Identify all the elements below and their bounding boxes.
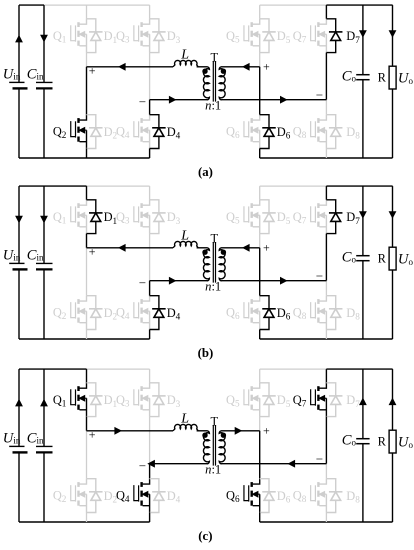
- wire: leg 2 midpoint lower: [149, 281, 151, 296]
- svg-text:L: L: [180, 412, 189, 427]
- inductor L: [173, 424, 198, 430]
- wire: leg 4 midpoint lower: [325, 281, 327, 296]
- wire: leg 3 midpoint upper: [259, 417, 261, 431]
- diode D2: [87, 296, 103, 330]
- wire current arrow, primary top (rightward): [114, 427, 122, 435]
- transistor Q5: [244, 19, 260, 53]
- wire current arrow, secondary bottom (rightward): [280, 96, 288, 104]
- wire: L to transformer primary: [197, 247, 208, 249]
- resistor R: [392, 369, 394, 430]
- wire top-left rail (inactive part): [87, 368, 150, 370]
- wire: leg 2 connection to top rail: [149, 369, 151, 383]
- wire: primary top (leg 1 midpoint to L): [87, 247, 174, 249]
- svg-text:Q5: Q5: [226, 29, 240, 45]
- svg-text:Q5: Q5: [226, 393, 240, 409]
- svg-text:Q3: Q3: [116, 393, 130, 409]
- svg-text:Q6: Q6: [226, 488, 240, 504]
- source Uin: [18, 186, 20, 263]
- wire current arrow, secondary bottom (rightward): [280, 277, 288, 285]
- diode D4: [150, 115, 166, 149]
- wire: leg 2 connection to bottom rail: [149, 330, 151, 340]
- svg-text:(c): (c): [198, 529, 212, 543]
- svg-text:D8: D8: [346, 489, 360, 505]
- transistor Q4: [134, 479, 150, 513]
- svg-text:Uo: Uo: [398, 435, 414, 451]
- wire: leg 1 connection to bottom rail: [86, 330, 88, 340]
- diode D8: [326, 296, 342, 330]
- transistor Q7: [311, 383, 327, 417]
- resistor R: [392, 5, 394, 66]
- wire: leg 3 connection to top rail: [259, 369, 261, 383]
- wire: primary top (leg 1 midpoint to L): [87, 430, 174, 432]
- wire / input current arrow (Uin): [15, 216, 23, 224]
- wire top-left rail (inactive part): [87, 185, 150, 187]
- diode D5: [260, 200, 276, 234]
- transformer T: [202, 242, 226, 283]
- transistor Q3: [134, 19, 150, 53]
- wire: secondary top (transformer to leg 3 midpoint): [221, 430, 259, 432]
- wire top-right rail (active part): [326, 368, 392, 370]
- svg-text:(a): (a): [198, 165, 213, 179]
- svg-text:Q1: Q1: [53, 393, 67, 409]
- transformer T: [202, 425, 226, 466]
- sub-figure (a): [3, 5, 414, 179]
- transistor Q1: [71, 383, 87, 417]
- wire: leg 2 connection to top rail: [149, 5, 151, 19]
- wire: leg 4 connection to top rail: [325, 369, 327, 383]
- transistor Q8: [311, 479, 327, 513]
- wire current arrow, primary bottom (rightward): [169, 277, 177, 285]
- diode D7: [326, 19, 342, 53]
- sub-figure (b): [3, 186, 414, 360]
- wire: leg 1 connection to bottom rail: [86, 149, 88, 159]
- svg-text:Cin: Cin: [27, 247, 44, 263]
- wire top-right rail (active part): [326, 4, 392, 6]
- wire current arrow, secondary bottom (leftward): [288, 460, 296, 468]
- transistor Q5: [244, 200, 260, 234]
- svg-text:Uin: Uin: [3, 247, 21, 263]
- wire current arrow, primary top (leftward): [118, 63, 126, 71]
- wire: leg 1 midpoint upper: [86, 417, 88, 431]
- svg-text:Q1: Q1: [53, 210, 67, 226]
- wire / output current arrow (R): [389, 30, 397, 38]
- wire bottom-left rail: [19, 521, 150, 523]
- svg-text:R: R: [378, 251, 387, 265]
- wire: leg 4 midpoint lower: [325, 464, 327, 479]
- svg-text:Q2: Q2: [53, 488, 67, 504]
- wire: leg 3 connection to bottom rail: [259, 149, 261, 159]
- diode D5: [260, 383, 276, 417]
- svg-text:n:1: n:1: [205, 280, 221, 294]
- wire: leg 2 connection to bottom rail: [149, 513, 151, 523]
- transformer T: [202, 61, 226, 102]
- diode D7: [326, 200, 342, 234]
- capacitor Co: [362, 5, 364, 74]
- wire / input current arrow (Cin): [40, 35, 48, 43]
- transistor Q5: [244, 383, 260, 417]
- svg-text:+: +: [89, 64, 96, 78]
- svg-text:Q8: Q8: [293, 488, 307, 504]
- inductor L: [173, 60, 198, 66]
- transistor Q2: [71, 479, 87, 513]
- transistor Q6: [244, 296, 260, 330]
- svg-text:Q2: Q2: [53, 305, 67, 321]
- wire: primary top (leg 1 midpoint to L): [87, 66, 174, 68]
- wire / output current arrow (Co): [359, 30, 367, 38]
- wire: leg 3 midpoint lower: [259, 431, 261, 479]
- svg-text:R: R: [378, 70, 387, 84]
- wire current arrow, secondary top (rightward): [235, 427, 243, 435]
- svg-text:D5: D5: [277, 29, 291, 45]
- svg-text:Co: Co: [342, 432, 357, 448]
- wire bottom-right rail: [260, 521, 393, 523]
- transistor Q8: [311, 115, 327, 149]
- svg-text:D3: D3: [167, 393, 181, 409]
- wire: leg 2 connection to top rail: [149, 186, 151, 200]
- wire: L to transformer primary: [197, 66, 208, 68]
- wire: leg 4 connection to bottom rail: [325, 330, 327, 340]
- transistor Q6: [244, 479, 260, 513]
- capacitor Co: [362, 369, 364, 438]
- wire: secondary bottom (transformer to leg 4 midpoint): [221, 280, 326, 282]
- svg-text:Q5: Q5: [226, 210, 240, 226]
- wire bottom-right rail: [260, 338, 393, 340]
- wire: leg 3 midpoint lower: [259, 67, 261, 115]
- wire: leg 3 midpoint upper: [259, 53, 261, 67]
- wire: primary bottom (leg 2 midpoint to transformer): [150, 99, 208, 101]
- wire: secondary bottom (transformer to leg 4 midpoint): [221, 463, 326, 465]
- node - (primary side): [139, 465, 145, 467]
- svg-text:D4: D4: [167, 489, 181, 505]
- transistor Q7: [311, 200, 327, 234]
- sub-figure (c): [3, 369, 414, 543]
- transistor Q8: [311, 296, 327, 330]
- wire: primary bottom (leg 2 midpoint to transformer): [150, 463, 208, 465]
- wire / output current arrow (Co): [359, 398, 367, 406]
- svg-text:Q3: Q3: [116, 29, 130, 45]
- source Uin: [18, 369, 20, 446]
- svg-text:D6: D6: [277, 489, 291, 505]
- wire: leg 1 connection to top rail: [86, 186, 88, 200]
- diode D3: [150, 19, 166, 53]
- wire: secondary top (transformer to leg 3 midpoint): [221, 66, 259, 68]
- wire: leg 4 connection to top rail: [325, 5, 327, 19]
- svg-text:Cin: Cin: [27, 66, 44, 82]
- transistor Q3: [134, 383, 150, 417]
- svg-text:Q2: Q2: [53, 124, 67, 140]
- svg-text:L: L: [180, 229, 189, 244]
- wire bottom-left rail: [19, 157, 150, 159]
- node - (secondary side): [316, 275, 322, 277]
- wire: leg 4 connection to bottom rail: [325, 149, 327, 159]
- svg-text:D7: D7: [346, 210, 360, 226]
- wire / input current arrow (Cin): [40, 399, 48, 407]
- wire: L to transformer primary: [197, 430, 208, 432]
- svg-text:Q8: Q8: [293, 305, 307, 321]
- svg-text:Q8: Q8: [293, 124, 307, 140]
- svg-text:+: +: [89, 428, 96, 442]
- svg-text:Co: Co: [342, 68, 357, 84]
- diode D5: [260, 19, 276, 53]
- wire: leg 2 connection to bottom rail: [149, 149, 151, 159]
- svg-text:+: +: [263, 241, 270, 255]
- diode D8: [326, 479, 342, 513]
- svg-text:T: T: [211, 231, 219, 245]
- transistor Q6: [244, 115, 260, 149]
- wire: leg 1 midpoint lower: [86, 67, 88, 115]
- wire current arrow, secondary top (leftward): [242, 63, 250, 71]
- svg-text:D8: D8: [346, 125, 360, 141]
- transistor Q3: [134, 200, 150, 234]
- wire: leg 1 connection to top rail: [86, 369, 88, 383]
- diode D3: [150, 200, 166, 234]
- wire: leg 2 midpoint lower: [149, 464, 151, 479]
- svg-text:(b): (b): [198, 346, 214, 360]
- wire: leg 4 midpoint upper: [325, 417, 327, 464]
- svg-text:Q7: Q7: [293, 393, 307, 409]
- svg-text:D5: D5: [277, 393, 291, 409]
- capacitor Cin: [43, 5, 45, 82]
- wire: leg 2 midpoint lower: [149, 100, 151, 115]
- diode D8: [326, 115, 342, 149]
- capacitor Cin: [43, 186, 45, 263]
- transistor Q7: [311, 19, 327, 53]
- wire: leg 1 midpoint upper: [86, 53, 88, 67]
- svg-text:+: +: [263, 60, 270, 74]
- wire / output current arrow (R): [389, 398, 397, 406]
- svg-text:D3: D3: [167, 29, 181, 45]
- svg-text:D5: D5: [277, 210, 291, 226]
- wire current arrow, primary bottom (rightward): [169, 96, 177, 104]
- transistor Q4: [134, 296, 150, 330]
- svg-text:Uin: Uin: [3, 66, 21, 82]
- transistor Q2: [71, 296, 87, 330]
- transistor Q1: [71, 200, 87, 234]
- svg-text:Cin: Cin: [27, 430, 44, 446]
- wire / output current arrow (Co): [359, 211, 367, 219]
- svg-text:T: T: [211, 414, 219, 428]
- diode D1: [87, 19, 103, 53]
- svg-text:Q4: Q4: [116, 488, 130, 504]
- wire: leg 1 midpoint lower: [86, 248, 88, 296]
- svg-text:Q1: Q1: [53, 29, 67, 45]
- svg-text:Q7: Q7: [293, 29, 307, 45]
- wire: leg 2 midpoint upper: [149, 234, 151, 281]
- wire: leg 1 midpoint upper: [86, 234, 88, 248]
- node - (secondary side): [316, 94, 322, 96]
- transistor Q2: [71, 115, 87, 149]
- wire: leg 4 midpoint upper: [325, 53, 327, 100]
- diode D3: [150, 383, 166, 417]
- inductor L: [173, 241, 198, 247]
- wire: leg 3 connection to top rail: [259, 186, 261, 200]
- svg-text:Uin: Uin: [3, 430, 21, 446]
- diode D4: [150, 296, 166, 330]
- source Uin: [18, 5, 20, 82]
- svg-text:D3: D3: [167, 210, 181, 226]
- wire: leg 3 midpoint upper: [259, 234, 261, 248]
- node - (primary side): [139, 101, 145, 103]
- svg-text:T: T: [211, 50, 219, 64]
- svg-text:+: +: [89, 245, 96, 259]
- svg-text:Uo: Uo: [398, 71, 414, 87]
- svg-text:D6: D6: [277, 306, 291, 322]
- wire / input current arrow (Cin): [40, 216, 48, 224]
- wire: leg 3 midpoint lower: [259, 248, 261, 296]
- svg-text:D4: D4: [167, 125, 181, 141]
- resistor R: [392, 186, 394, 247]
- wire: secondary top (transformer to leg 3 midpoint): [221, 247, 259, 249]
- diode D7: [326, 383, 342, 417]
- wire top-left rail (active part): [19, 185, 87, 187]
- svg-text:n:1: n:1: [205, 463, 221, 477]
- diode D6: [260, 115, 276, 149]
- wire top-right rail (inactive part): [260, 368, 327, 370]
- svg-text:D6: D6: [277, 125, 291, 141]
- wire: leg 4 midpoint lower: [325, 100, 327, 115]
- svg-text:Q6: Q6: [226, 305, 240, 321]
- wire / input current arrow (Uin): [15, 399, 23, 407]
- svg-text:Co: Co: [342, 249, 357, 265]
- svg-text:R: R: [378, 434, 387, 448]
- wire top-right rail (inactive part): [260, 185, 327, 187]
- diode D4: [150, 479, 166, 513]
- node - (secondary side): [316, 458, 322, 460]
- wire: leg 1 connection to bottom rail: [86, 513, 88, 523]
- wire bottom-right rail: [260, 157, 393, 159]
- svg-text:Uo: Uo: [398, 252, 414, 268]
- wire top-left rail (inactive part): [44, 4, 150, 6]
- wire: secondary bottom (transformer to leg 4 midpoint): [221, 99, 326, 101]
- wire current arrow, secondary top (leftward): [242, 244, 250, 252]
- wire: leg 1 midpoint lower: [86, 431, 88, 479]
- wire / input current arrow (Uin): [15, 35, 23, 43]
- capacitor Co: [362, 186, 364, 255]
- wire: leg 3 connection to bottom rail: [259, 513, 261, 523]
- wire current arrow, primary top (leftward): [118, 244, 126, 252]
- svg-text:D4: D4: [167, 306, 181, 322]
- wire: leg 1 connection to top rail: [86, 5, 88, 19]
- svg-text:Q3: Q3: [116, 210, 130, 226]
- diode D6: [260, 479, 276, 513]
- svg-text:Q4: Q4: [116, 305, 130, 321]
- diode D1: [87, 383, 103, 417]
- transistor Q1: [71, 19, 87, 53]
- wire: leg 4 connection to bottom rail: [325, 513, 327, 523]
- diode D2: [87, 479, 103, 513]
- svg-text:L: L: [180, 48, 189, 63]
- svg-text:n:1: n:1: [205, 99, 221, 113]
- node - (primary side): [139, 282, 145, 284]
- wire: leg 2 midpoint upper: [149, 53, 151, 100]
- wire top-right rail (inactive part): [260, 4, 327, 6]
- capacitor Cin: [43, 369, 45, 446]
- wire / output current arrow (R): [389, 211, 397, 219]
- svg-text:Q7: Q7: [293, 210, 307, 226]
- wire: leg 2 midpoint upper: [149, 417, 151, 464]
- wire bottom-left rail: [19, 338, 150, 340]
- wire: primary bottom (leg 2 midpoint to transformer): [150, 280, 208, 282]
- diode D6: [260, 296, 276, 330]
- wire current arrow, primary bottom (leftward): [147, 460, 155, 468]
- svg-text:+: +: [263, 424, 270, 438]
- wire: leg 4 connection to top rail: [325, 186, 327, 200]
- diode D1: [87, 200, 103, 234]
- wire: leg 4 midpoint upper: [325, 234, 327, 281]
- wire top-left rail (active part): [19, 368, 87, 370]
- svg-text:D7: D7: [346, 393, 360, 409]
- wire: leg 3 connection to top rail: [259, 5, 261, 19]
- svg-text:D7: D7: [346, 29, 360, 45]
- svg-text:Q4: Q4: [116, 124, 130, 140]
- wire top-right rail (active part): [326, 185, 392, 187]
- transistor Q4: [134, 115, 150, 149]
- diode D2: [87, 115, 103, 149]
- wire top-left rail (active part): [19, 4, 44, 6]
- svg-text:D8: D8: [346, 306, 360, 322]
- svg-text:Q6: Q6: [226, 124, 240, 140]
- wire: leg 3 connection to bottom rail: [259, 330, 261, 340]
